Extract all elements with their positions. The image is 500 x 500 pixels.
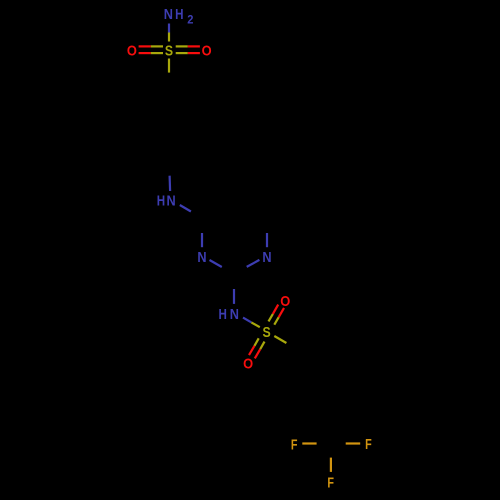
svg-text:F: F [291, 436, 298, 453]
svg-text:O: O [127, 42, 137, 59]
svg-text:H: H [219, 306, 227, 323]
svg-text:O: O [280, 293, 290, 310]
svg-text:S: S [263, 324, 271, 341]
svg-text:N: N [230, 306, 239, 323]
svg-text:S: S [165, 42, 173, 59]
svg-text:F: F [327, 474, 334, 491]
svg-text:H: H [157, 192, 165, 209]
svg-text:N: N [167, 192, 176, 209]
svg-text:F: F [365, 436, 372, 453]
svg-text:O: O [243, 355, 253, 372]
svg-text:2: 2 [187, 13, 193, 27]
svg-text:N: N [262, 249, 271, 266]
svg-text:H: H [175, 6, 183, 23]
svg-text:O: O [202, 42, 212, 59]
svg-text:N: N [164, 6, 173, 23]
svg-text:N: N [197, 249, 206, 266]
